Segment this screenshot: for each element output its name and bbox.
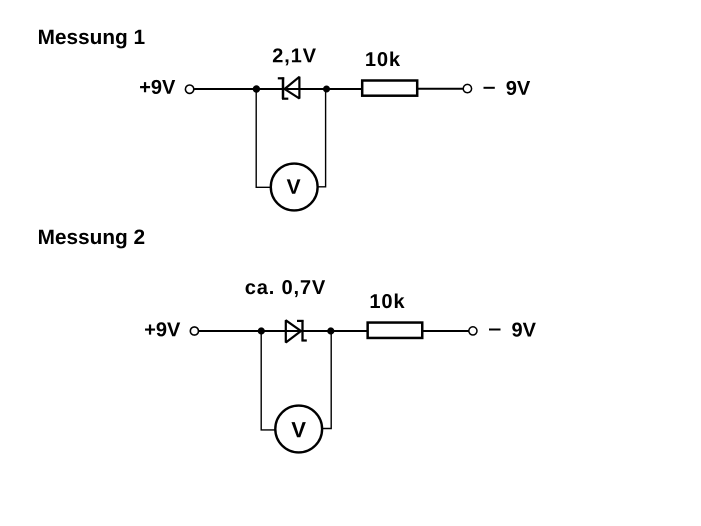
diode D2: top tick of bar [297, 320, 304, 322]
label +9V (left supply, measurement 1) [140, 80, 175, 94]
wire: left branch node C down to voltmeter V2 [261, 331, 275, 430]
voltmeter V2 (circle, measurement 2) [275, 406, 322, 453]
title: Messung 1 [39, 30, 145, 49]
label 10k (resistor R2 value) [371, 294, 405, 309]
junction node D (right diode node, measurement 2) [327, 327, 334, 334]
voltmeter V1 (circle, measurement 1) [271, 164, 318, 211]
wire: right branch node B down to voltmeter V1 [318, 89, 326, 187]
resistor R2 10k (box) [368, 323, 423, 338]
terminal -9V (open circle, measurement 1) [463, 84, 471, 92]
title: Messung 2 [39, 229, 144, 248]
label 9V (right supply, measurement 1) [506, 81, 530, 95]
junction node A (left diode node, measurement 1) [253, 85, 260, 92]
label 9V (right supply, measurement 2) [512, 323, 536, 337]
diode D2: cathode bar [301, 320, 303, 341]
terminal -9V (open circle, measurement 2) [469, 327, 477, 335]
wire: resistor R1 to -9V terminal (measurement 1) [418, 88, 463, 90]
diode D2: triangle (anode, pointing right) [286, 320, 301, 342]
zener diode D1: triangle (anode, pointing left) [285, 77, 300, 99]
label ca. 0,7V (diode voltage, measurement 2) [246, 280, 326, 297]
terminal +9V (open circle, measurement 2) [190, 327, 198, 335]
wire: left branch node A down to voltmeter V1 [256, 89, 271, 187]
wire: +9V terminal to resistor (main horizontal, measurement 2) [199, 330, 368, 332]
zener diode D1: bottom tick of bar [282, 98, 288, 100]
junction node B (right diode node, measurement 1) [323, 86, 330, 93]
label +9V (left supply, measurement 2) [145, 322, 180, 336]
terminal +9V (open circle, measurement 1) [185, 85, 193, 93]
wire: +9V terminal to resistor (main horizontal, measurement 1) [194, 88, 362, 90]
label 2,1V (zener voltage, measurement 1) [273, 48, 316, 65]
resistor R1 10k (box) [362, 81, 417, 96]
minus sign (measurement 1) [484, 87, 495, 89]
diode D2: bottom tick of bar [302, 339, 307, 341]
wire: resistor R2 to -9V terminal (measurement 2) [424, 330, 469, 332]
label 10k (resistor R1 value) [366, 52, 400, 67]
wire: right branch node D down to voltmeter V2 [323, 331, 332, 429]
label V (voltmeter V2) [291, 422, 305, 437]
label V (voltmeter V1) [287, 179, 301, 193]
zener diode D1: top tick of bar [278, 77, 284, 79]
junction node C (left diode node, measurement 2) [258, 327, 265, 334]
minus sign (measurement 2) [489, 329, 501, 331]
zener diode D1: cathode bar [282, 77, 285, 99]
